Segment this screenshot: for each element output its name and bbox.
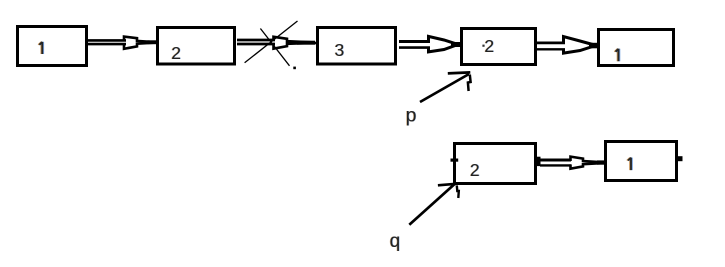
scribble end dot bbox=[293, 67, 296, 70]
label 3 in box 3 bbox=[334, 40, 345, 60]
cross-out scribble line 2 (NW to SE) over deleted arrow bbox=[260, 29, 289, 66]
wire arrow box3 to box4 bbox=[399, 36, 460, 52]
node box 1 (value 1, top row) bbox=[18, 27, 87, 66]
label 2 in box 6 bbox=[469, 160, 480, 180]
label p bbox=[405, 105, 417, 127]
node box 3 (value 3, top row) bbox=[318, 28, 396, 65]
svg-text:2: 2 bbox=[171, 43, 181, 63]
node box 5 (value 1, top row tail) bbox=[599, 30, 674, 66]
node box 7 (value 1, bottom row tail) bbox=[606, 142, 677, 181]
cross-out scribble line 1 (NE to SW) over deleted arrow bbox=[245, 21, 298, 63]
node box 6 (value 2, bottom row, pointed to by q) bbox=[455, 144, 536, 184]
label .2 in box 4 bbox=[482, 36, 494, 56]
pointer arrow p (diagonal, points to box 4) bbox=[420, 72, 471, 102]
svg-text:3: 3 bbox=[335, 40, 345, 60]
wire arrow box4 to box5 bbox=[537, 37, 602, 54]
label 1 in box 7 bbox=[627, 158, 632, 171]
node box 2 (value 2, top row) bbox=[158, 28, 235, 65]
wire arrow box6 to box7 bbox=[537, 157, 608, 169]
label 1 in box 1 bbox=[38, 42, 43, 54]
wire arrow box2 to box3 bbox=[237, 37, 320, 49]
svg-text:2: 2 bbox=[484, 36, 494, 56]
svg-text:p: p bbox=[406, 105, 417, 127]
label q bbox=[389, 231, 401, 252]
label 1 in box 5 bbox=[614, 49, 619, 62]
svg-text:q: q bbox=[390, 231, 401, 252]
node box 4 (value 2, pointed to by p) bbox=[462, 29, 536, 65]
wire arrow box1 to box2 bbox=[88, 37, 163, 49]
tick nub on right edge of box 7 bbox=[678, 156, 683, 161]
svg-text:2: 2 bbox=[470, 160, 480, 180]
label 2 in box 2 bbox=[171, 43, 182, 63]
pointer arrow q (diagonal, points to box 6) bbox=[409, 183, 459, 225]
tick mark on left edge of box 6 bbox=[451, 159, 459, 162]
